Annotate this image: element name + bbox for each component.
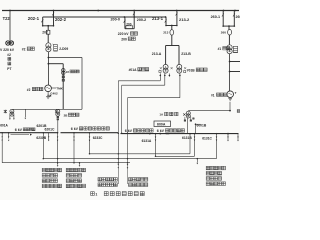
svg-text:6131C: 6131C bbox=[202, 137, 212, 141]
generator #1发电机 bbox=[227, 91, 234, 98]
svg-text:200-2: 200-2 bbox=[137, 18, 146, 22]
PV tie vertical 1 bbox=[117, 81, 119, 162]
tap-changer symbol bbox=[54, 45, 58, 52]
wire to #1 main transformer bbox=[228, 26, 230, 29]
svg-text:T: T bbox=[235, 91, 237, 95]
svg-text:200: 200 bbox=[121, 37, 127, 41]
svg-text:#2: #2 bbox=[66, 70, 70, 74]
svg-text:213: 213 bbox=[163, 31, 168, 35]
standby secondary lead B1 bbox=[179, 75, 181, 77]
generator #2发电机 bbox=[45, 85, 52, 92]
svg-text:213-2: 213-2 bbox=[179, 17, 190, 22]
feeder arrows below IIB bus bbox=[1, 137, 3, 139]
svg-text:213-A: 213-A bbox=[152, 52, 162, 56]
PV tie vertical 3 bbox=[127, 98, 129, 163]
svg-text:200-0: 200-0 bbox=[111, 17, 120, 21]
label TMK bbox=[51, 87, 56, 89]
svg-text:G402: G402 bbox=[50, 91, 58, 95]
svg-text:6233C: 6233C bbox=[93, 136, 103, 140]
bus-tie 200: wire from second bus bbox=[124, 17, 126, 29]
standby secondary lead A2 bbox=[164, 75, 166, 77]
svg-text:#2: #2 bbox=[27, 88, 31, 92]
wire tie riser bbox=[189, 134, 191, 154]
split to standby transformers bbox=[166, 45, 179, 47]
svg-text:#01B: #01B bbox=[187, 68, 196, 72]
svg-text:260-1: 260-1 bbox=[211, 15, 220, 19]
excitation transformer #2励磁变 bbox=[62, 69, 66, 73]
note: standby transformer PV access point (left) bbox=[98, 178, 102, 182]
transformer #1主变 bbox=[227, 45, 232, 50]
breaker 200 bbox=[126, 26, 133, 29]
svg-text:200: 200 bbox=[126, 22, 132, 26]
wire 6233C drop bbox=[89, 133, 91, 154]
wire 6231B drop bbox=[42, 133, 44, 159]
svg-text:#1: #1 bbox=[211, 93, 215, 97]
svg-text:260: 260 bbox=[236, 15, 241, 19]
wire 6131C drop bbox=[216, 134, 218, 159]
rectifier marks bbox=[62, 76, 64, 78]
breaker 213 bbox=[170, 30, 174, 35]
213 tie bar bbox=[166, 25, 177, 27]
branch wires (clipped right) bbox=[229, 61, 231, 63]
feeder to 1A aux transformer bbox=[188, 110, 230, 112]
figure caption 图1 电厂电气主接线 bbox=[91, 192, 95, 196]
bottom tie wire (long) bbox=[2, 162, 130, 164]
bus direction arrows bbox=[160, 133, 162, 135]
feed arrow under IIB bus bbox=[11, 134, 30, 136]
213 bay: disconnect 213-1 wire bbox=[165, 17, 167, 26]
svg-text:6001B: 6001B bbox=[197, 124, 207, 128]
6001B tap bbox=[195, 123, 197, 125]
svg-text:202: 202 bbox=[42, 30, 48, 34]
junction dots lower network bbox=[43, 158, 45, 160]
2A secondary leads bbox=[9, 115, 11, 118]
standby secondary lead A1 bbox=[160, 75, 162, 77]
unit2 aux feeder bar bbox=[12, 108, 82, 110]
branch to excitation transformer bbox=[48, 63, 50, 65]
svg-text:202-1: 202-1 bbox=[28, 16, 40, 21]
generator grounding bbox=[47, 92, 49, 97]
svg-text:PT: PT bbox=[7, 67, 11, 71]
svg-text:6 kV: 6 kV bbox=[125, 129, 133, 133]
svg-text:6131A: 6131A bbox=[142, 139, 152, 143]
bus-tie 200: wire from main bus bbox=[133, 11, 135, 29]
feeder x228 bbox=[227, 133, 229, 135]
svg-text:6131B: 6131B bbox=[182, 136, 192, 140]
breaker 260 bbox=[228, 29, 232, 35]
6kV bus IA/IB section bbox=[121, 133, 239, 135]
svg-text:#01A: #01A bbox=[129, 68, 138, 72]
standby transformer #01A启备变 bbox=[163, 64, 168, 69]
wire IIC drop1 bbox=[73, 133, 75, 163]
note: standby transformer PV access point (right) bbox=[129, 178, 133, 182]
branch to unit aux (upper) bbox=[48, 57, 50, 59]
6231B feeder drop bbox=[48, 133, 50, 140]
220kV second bus section (200-0 side) bbox=[43, 16, 166, 18]
wire 6131B drop bbox=[194, 134, 196, 157]
svg-text:6 kV: 6 kV bbox=[71, 127, 79, 131]
svg-text:6231B: 6231B bbox=[36, 136, 46, 140]
right edge feeder bbox=[237, 134, 239, 140]
aux transformer 1A高厂变 bbox=[186, 111, 190, 115]
busbar junction nodes bbox=[9, 10, 11, 12]
260 bay: disconnect 260-1 wire bbox=[222, 11, 224, 27]
svg-text:213-B: 213-B bbox=[181, 52, 191, 56]
svg-text:V 220 kV: V 220 kV bbox=[0, 48, 15, 52]
svg-text:6 kV: 6 kV bbox=[15, 128, 23, 132]
transformer #2 main (two windings) bbox=[46, 43, 51, 48]
tap-changer symbol bbox=[233, 46, 237, 52]
note block: IC bus side PV no.3 bbox=[206, 166, 210, 170]
bus PT bay: wire from bus bbox=[9, 11, 11, 41]
upper tie wire bbox=[90, 153, 191, 155]
svg-text:#1: #1 bbox=[218, 47, 222, 51]
breaker 202 bbox=[46, 30, 50, 34]
aux transformer 2A (601A) bbox=[10, 109, 14, 113]
PV stub arrow right bbox=[196, 159, 198, 163]
svg-text:#2: #2 bbox=[7, 53, 11, 57]
bus-tie bottom bar bbox=[125, 28, 134, 30]
wire PV block2 stub bbox=[79, 163, 81, 165]
note block: IIC bus side PV no.1 bbox=[66, 168, 70, 172]
svg-text:260: 260 bbox=[221, 30, 226, 34]
svg-text:2-D09: 2-D09 bbox=[59, 47, 68, 51]
svg-text:#2: #2 bbox=[22, 47, 26, 51]
202 bay: disconnect 202-1 wire bbox=[42, 17, 44, 26]
svg-text:601A: 601A bbox=[0, 123, 8, 127]
wire 6131A drop bbox=[155, 134, 157, 157]
svg-text:TMK: TMK bbox=[56, 87, 63, 91]
svg-text:1: 1 bbox=[95, 192, 97, 196]
wire PV block1 drop bbox=[57, 133, 59, 165]
note block: IIC bus side PV no.2 bbox=[42, 168, 46, 172]
standby transformer #01B启备变 bbox=[177, 64, 182, 69]
mid tie wire bbox=[43, 158, 216, 160]
202 bay: disconnect 202-2 wire bbox=[53, 11, 55, 26]
svg-text:6 kV: 6 kV bbox=[157, 129, 165, 133]
direction arrow on main bus bbox=[98, 9, 100, 11]
#1 unit feeder wire bbox=[229, 53, 231, 91]
6kV bus IIB section bbox=[0, 132, 58, 134]
aux transformer 2B高厂变 bbox=[56, 109, 60, 113]
svg-text:213-1: 213-1 bbox=[152, 16, 164, 21]
260 bay: disconnect 260-2 wire bbox=[233, 11, 235, 27]
220kV main busbar (top) bbox=[2, 10, 239, 12]
svg-text:6201C: 6201C bbox=[45, 128, 56, 132]
section breaker 600A bbox=[154, 121, 171, 127]
mid tie wire B bbox=[156, 155, 195, 157]
wire breaker202 to transformer bbox=[47, 26, 49, 31]
260 tie bar bbox=[223, 25, 234, 27]
202 bay: tie bar bbox=[43, 25, 54, 27]
6kV bus IIC section bbox=[61, 132, 119, 134]
svg-text:202-2: 202-2 bbox=[55, 17, 67, 22]
clipped text right edge bbox=[237, 110, 240, 113]
svg-text:220 kV: 220 kV bbox=[118, 32, 129, 36]
svg-text:600A: 600A bbox=[157, 123, 166, 127]
213 bay: disconnect 213-2 wire bbox=[176, 11, 178, 26]
PV tie vertical 2 bbox=[121, 85, 123, 134]
svg-text:T22: T22 bbox=[3, 16, 11, 21]
generator feeder wire bbox=[47, 52, 49, 85]
wire IIB left drop bbox=[1, 133, 3, 163]
bus PT symbol bbox=[6, 41, 10, 45]
